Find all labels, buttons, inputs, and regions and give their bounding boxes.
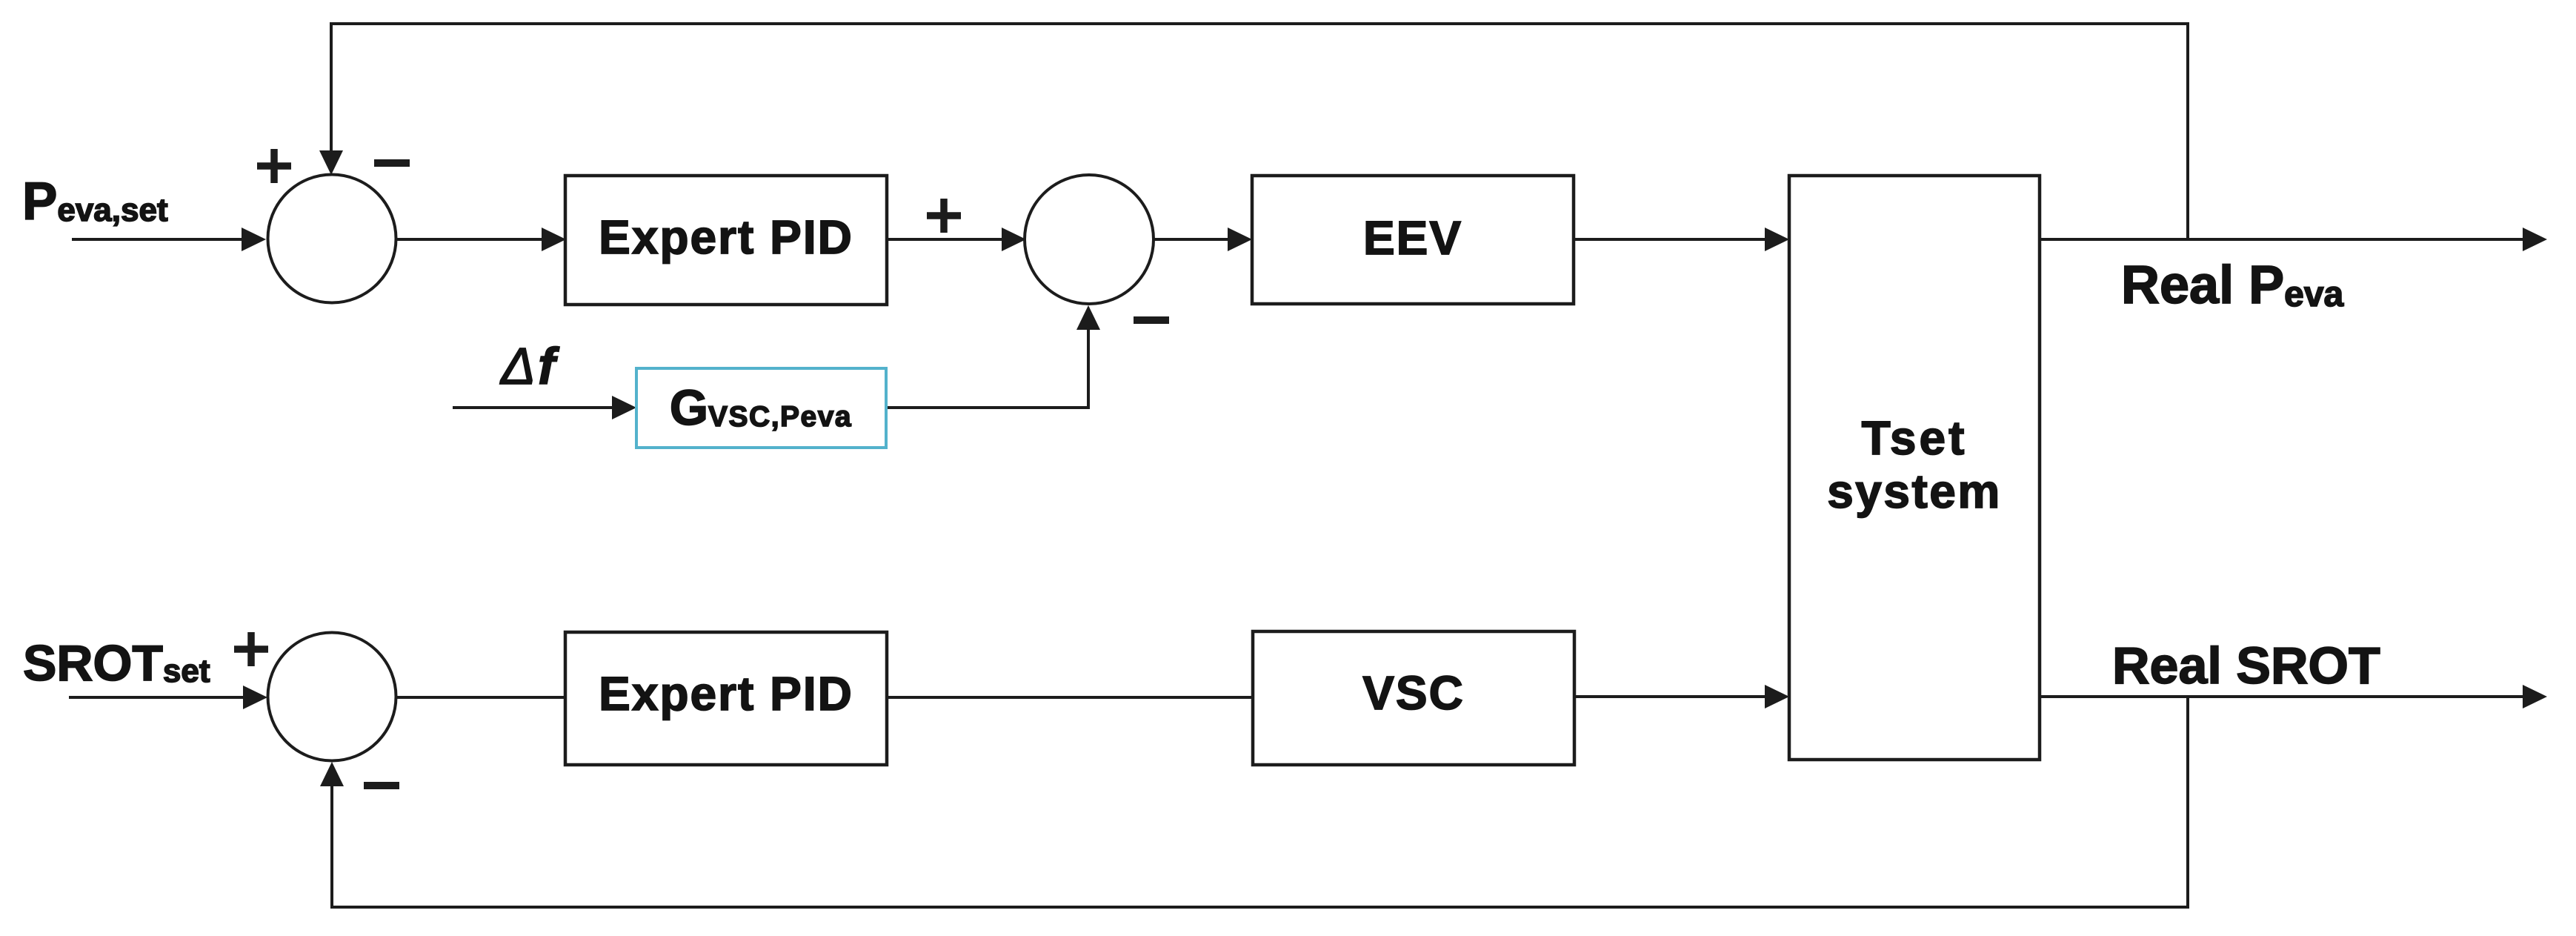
arrowhead up into sum3	[320, 762, 344, 786]
summing junction sum3	[268, 633, 396, 761]
minus sign at sum3	[364, 782, 399, 789]
wire Expert PID to sum2	[887, 238, 1005, 241]
wire Expert PID 2 to VSC	[887, 696, 1254, 699]
wire sum3 to Expert PID 2	[396, 696, 567, 699]
wire bottom feedback horizontal	[330, 906, 2189, 909]
block Tset system	[1789, 176, 2040, 760]
arrowhead input Peva,set	[242, 228, 266, 251]
block EEV	[1252, 176, 1574, 304]
wire input SROTset	[69, 696, 247, 699]
block Expert PID (bottom)	[565, 632, 887, 765]
minus sign at sum2	[1134, 316, 1169, 324]
block VSC	[1253, 631, 1574, 765]
svg-text:system: system	[1827, 465, 2002, 518]
svg-text:EEV: EEV	[1363, 211, 1462, 265]
summing junction sum1	[268, 175, 396, 303]
arrowhead Real SROT output	[2523, 685, 2547, 708]
block Expert PID (top)	[565, 176, 887, 305]
wire sum2 to EEV	[1153, 238, 1230, 241]
svg-text:VSC: VSC	[1362, 666, 1465, 720]
arrowhead Expert PID to sum2	[1002, 228, 1026, 251]
arrowhead Gvsc up into sum2	[1076, 305, 1100, 330]
svg-text:Tset: Tset	[1862, 411, 1968, 465]
arrowhead down into sum1	[319, 150, 343, 175]
arrowhead input SROTset	[243, 686, 267, 709]
wire delta-f input	[453, 406, 616, 409]
wire input Peva,set	[72, 238, 244, 241]
wire bottom feedback rise left	[330, 784, 333, 909]
wire top feedback horizontal	[330, 22, 2189, 25]
svg-text:Real SROT: Real SROT	[2112, 637, 2380, 694]
wire top feedback riser right	[2186, 22, 2189, 241]
arrowhead sum1 to Expert PID	[542, 228, 566, 251]
plus sign at sum2	[927, 199, 961, 233]
wire VSC to Tset	[1574, 695, 1768, 698]
wire Tset to Real Peva output	[2040, 238, 2525, 241]
plus sign at sum3	[234, 632, 268, 666]
plus sign at sum1	[257, 149, 291, 183]
arrowhead EEV to Tset	[1765, 228, 1789, 251]
arrowhead delta-f into Gvsc	[612, 396, 636, 419]
minus sign at sum1	[374, 159, 410, 167]
wire Tset to Real SROT output	[2040, 695, 2525, 698]
wire bottom feedback riser right	[2186, 697, 2189, 909]
arrowhead sum2 to EEV	[1228, 228, 1252, 251]
block Gvsc,Peva (cyan)	[636, 368, 886, 448]
svg-text:Expert PID: Expert PID	[599, 667, 853, 720]
wire EEV to Tset	[1574, 238, 1768, 241]
arrowhead Real Peva output	[2523, 228, 2547, 251]
arrowhead VSC to Tset	[1765, 685, 1789, 708]
wire Gvsc to sum2	[886, 328, 1088, 408]
svg-text:Expert PID: Expert PID	[599, 210, 853, 264]
summing junction sum2	[1025, 175, 1154, 304]
wire top feedback drop left	[330, 22, 333, 154]
wire sum1 to Expert PID	[396, 238, 545, 241]
svg-text:Δf: Δf	[499, 337, 560, 395]
